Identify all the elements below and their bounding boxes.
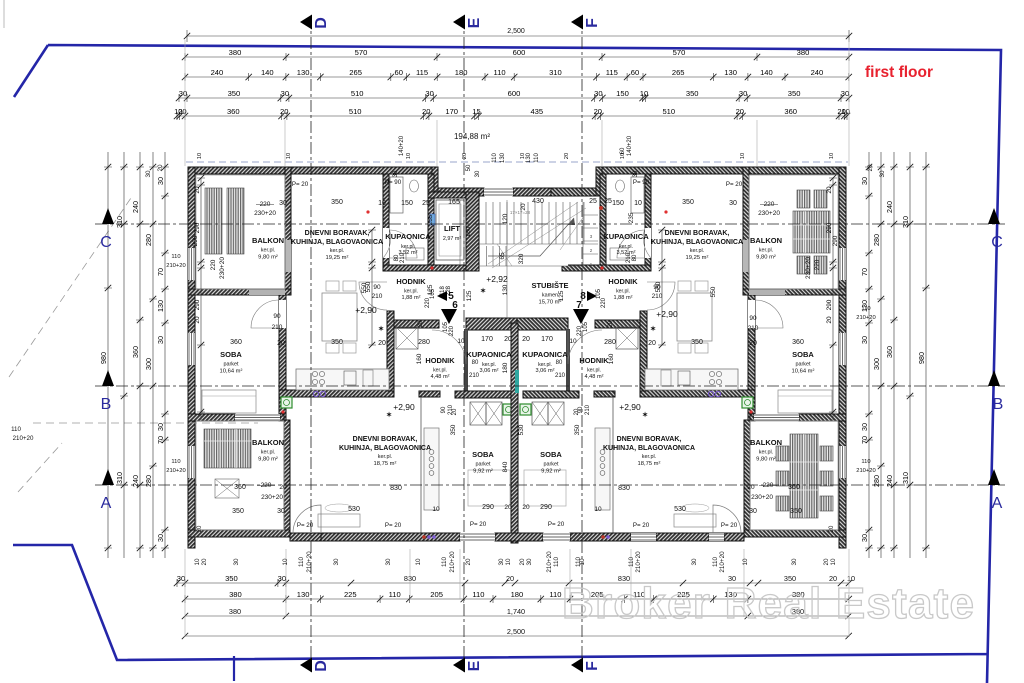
svg-text:280: 280 (418, 339, 430, 346)
svg-text:194,88 m²: 194,88 m² (454, 132, 490, 141)
svg-text:10: 10 (841, 107, 849, 116)
svg-text:30: 30 (791, 558, 798, 566)
svg-text:65: 65 (499, 252, 506, 260)
svg-text:19,25 m²: 19,25 m² (326, 255, 349, 261)
svg-text:20: 20 (504, 504, 512, 511)
svg-text:170: 170 (481, 336, 493, 343)
svg-text:20: 20 (519, 558, 526, 566)
svg-text:510: 510 (351, 89, 364, 98)
svg-text:30: 30 (156, 534, 165, 542)
svg-text:265: 265 (672, 68, 685, 77)
svg-text:9,80 m²: 9,80 m² (756, 456, 776, 462)
svg-text:10: 10 (829, 153, 835, 159)
svg-text:30: 30 (278, 574, 286, 583)
svg-text:230+20: 230+20 (254, 210, 276, 217)
svg-text:180: 180 (511, 590, 524, 599)
svg-text:KUPAONICA: KUPAONICA (603, 232, 649, 241)
svg-text:550: 550 (710, 286, 717, 297)
svg-text:235: 235 (427, 214, 434, 225)
svg-text:160: 160 (416, 353, 423, 364)
svg-text:ker.pl.: ker.pl. (404, 289, 418, 295)
svg-text:20: 20 (736, 107, 744, 116)
svg-text:P= 20: P= 20 (721, 522, 738, 529)
svg-text:110: 110 (492, 153, 498, 163)
svg-text:130: 130 (500, 152, 506, 163)
svg-text:70: 70 (156, 268, 165, 276)
svg-text:230+20: 230+20 (751, 494, 773, 501)
svg-text:20: 20 (452, 408, 458, 415)
svg-text:ker.pl.: ker.pl. (616, 289, 630, 295)
svg-text:15: 15 (472, 107, 480, 116)
svg-text:290: 290 (192, 235, 199, 246)
svg-text:30: 30 (333, 558, 340, 566)
svg-text:30: 30 (594, 89, 602, 98)
svg-text:kamen: kamen (542, 293, 558, 299)
svg-text:210+20: 210+20 (635, 551, 642, 573)
svg-text:20: 20 (867, 164, 874, 172)
svg-text:20: 20 (574, 408, 580, 415)
svg-text:P= 20: P= 20 (292, 181, 309, 188)
svg-text:90: 90 (273, 313, 281, 320)
svg-text:360: 360 (885, 346, 894, 358)
svg-text:KUHINJA, BLAGOVAONICA: KUHINJA, BLAGOVAONICA (603, 445, 695, 452)
svg-text:30: 30 (860, 336, 869, 344)
svg-text:30: 30 (233, 558, 240, 566)
svg-text:830: 830 (390, 485, 402, 492)
svg-text:ker.pl.: ker.pl. (261, 248, 275, 254)
svg-text:380: 380 (229, 607, 241, 616)
svg-text:360: 360 (230, 339, 242, 346)
svg-text:310: 310 (549, 68, 562, 77)
svg-text:290: 290 (540, 504, 552, 511)
svg-text:570: 570 (355, 48, 368, 57)
svg-text:280: 280 (872, 234, 881, 246)
svg-text:110: 110 (553, 556, 560, 567)
svg-text:350: 350 (228, 89, 241, 98)
svg-text:125: 125 (466, 290, 473, 301)
svg-text:20: 20 (823, 558, 830, 566)
svg-text:280: 280 (144, 234, 153, 246)
svg-text:30: 30 (498, 558, 505, 566)
svg-text:20: 20 (280, 107, 288, 116)
svg-text:DNEVNI BORAVAK,: DNEVNI BORAVAK, (665, 230, 730, 237)
svg-text:9,80 m²: 9,80 m² (258, 456, 278, 462)
svg-text:KUHINJA, BLAGOVAONICA: KUHINJA, BLAGOVAONICA (651, 239, 743, 246)
svg-text:290: 290 (832, 235, 839, 246)
svg-text:220: 220 (577, 325, 583, 336)
svg-text:140+20: 140+20 (399, 135, 405, 156)
svg-text:210: 210 (400, 252, 406, 263)
svg-text:30: 30 (526, 558, 533, 566)
svg-text:DNEVNI BORAVAK,: DNEVNI BORAVAK, (617, 436, 682, 443)
svg-text:140: 140 (760, 68, 773, 77)
svg-text:30: 30 (277, 508, 285, 515)
svg-text:210+20: 210+20 (306, 551, 313, 573)
svg-text:90: 90 (441, 406, 447, 413)
svg-text:18,75 m²: 18,75 m² (374, 461, 397, 467)
svg-text:290: 290 (482, 504, 494, 511)
svg-text:240: 240 (131, 201, 140, 213)
svg-text:90: 90 (749, 315, 757, 322)
svg-text:360: 360 (131, 346, 140, 358)
svg-text:SOBA: SOBA (220, 350, 242, 359)
svg-text:230+20: 230+20 (758, 210, 780, 217)
svg-text:280: 280 (604, 339, 616, 346)
svg-text:150: 150 (616, 89, 629, 98)
svg-text:parket: parket (476, 462, 491, 468)
svg-text:A: A (992, 495, 1003, 512)
svg-text:110: 110 (549, 590, 561, 599)
svg-text:30: 30 (860, 177, 869, 185)
svg-text:125: 125 (558, 290, 565, 301)
svg-text:BALKON: BALKON (252, 438, 284, 447)
svg-text:D: D (313, 660, 330, 672)
svg-text:80: 80 (632, 254, 638, 261)
svg-text:210: 210 (555, 373, 566, 379)
svg-text:350: 350 (686, 89, 699, 98)
svg-text:10: 10 (197, 153, 203, 159)
svg-text:110: 110 (534, 153, 540, 163)
svg-text:ker.pl.: ker.pl. (690, 248, 704, 254)
svg-text:4,48 m²: 4,48 m² (431, 374, 450, 380)
svg-text:240: 240 (885, 475, 894, 487)
svg-text:240: 240 (211, 68, 224, 77)
svg-text:110: 110 (298, 556, 305, 567)
svg-text:30: 30 (860, 534, 869, 542)
svg-text:P= 20: P= 20 (726, 181, 743, 188)
svg-text:210+20: 210+20 (13, 435, 34, 442)
svg-text:2,500: 2,500 (507, 28, 525, 35)
svg-text:10: 10 (282, 558, 289, 566)
svg-text:220: 220 (814, 259, 821, 270)
svg-text:30: 30 (156, 336, 165, 344)
svg-text:130: 130 (502, 284, 509, 295)
svg-text:+2,90: +2,90 (355, 305, 377, 315)
svg-text:225: 225 (344, 590, 357, 599)
svg-text:10: 10 (378, 200, 386, 207)
svg-text:HODNIK: HODNIK (579, 356, 609, 365)
svg-text:30: 30 (841, 89, 849, 98)
svg-text:P= 90: P= 90 (385, 179, 402, 186)
svg-text:D: D (313, 17, 330, 29)
svg-text:105: 105 (596, 288, 602, 299)
svg-text:F: F (584, 661, 601, 671)
svg-text:530: 530 (348, 506, 360, 513)
svg-text:HODNIK: HODNIK (396, 277, 426, 286)
svg-text:530: 530 (518, 424, 525, 435)
svg-text:20: 20 (197, 525, 203, 532)
svg-text:20: 20 (826, 316, 833, 324)
svg-text:9,92 m²: 9,92 m² (541, 468, 561, 474)
svg-text:ker.pl.: ker.pl. (759, 248, 773, 254)
svg-text:235: 235 (628, 212, 635, 223)
svg-text:350: 350 (682, 199, 694, 206)
svg-text:350: 350 (788, 89, 801, 98)
svg-text:20: 20 (594, 107, 602, 116)
svg-text:HODNIK: HODNIK (425, 356, 455, 365)
svg-text:380: 380 (229, 590, 242, 599)
svg-text:110: 110 (494, 68, 506, 77)
svg-text:120: 120 (502, 213, 509, 224)
svg-text:110: 110 (11, 426, 21, 433)
svg-text:1,740: 1,740 (507, 607, 525, 616)
svg-text:4,48 m²: 4,48 m² (585, 374, 604, 380)
svg-text:B: B (101, 396, 112, 413)
svg-text:130: 130 (297, 590, 310, 599)
svg-text:230+20: 230+20 (805, 257, 812, 279)
svg-text:10: 10 (520, 153, 526, 159)
svg-text:BALKON: BALKON (750, 438, 782, 447)
svg-text:Broker Real Estate: Broker Real Estate (562, 579, 974, 628)
svg-text:30: 30 (393, 170, 399, 177)
svg-text:20: 20 (506, 574, 514, 583)
svg-text:✶: ✶ (378, 325, 384, 333)
svg-text:360: 360 (788, 484, 800, 491)
svg-text:20: 20 (504, 336, 512, 343)
svg-text:110: 110 (171, 459, 180, 465)
svg-text:+2,90: +2,90 (393, 402, 415, 412)
svg-text:3,06 m²: 3,06 m² (480, 368, 499, 374)
svg-text:110: 110 (712, 556, 719, 567)
svg-text:60: 60 (394, 68, 402, 77)
svg-text:130: 130 (526, 152, 532, 163)
svg-text:✶: ✶ (386, 411, 392, 419)
svg-text:210+20: 210+20 (856, 468, 876, 474)
svg-text:SOBA: SOBA (472, 450, 494, 459)
svg-text:600: 600 (508, 89, 521, 98)
svg-text:30: 30 (145, 170, 152, 178)
svg-text:KUHINJA, BLAGOVAONICA: KUHINJA, BLAGOVAONICA (339, 445, 431, 452)
svg-text:DNEVNI BORAVAK,: DNEVNI BORAVAK, (353, 436, 418, 443)
svg-text:350: 350 (331, 199, 343, 206)
svg-text:9,80 m²: 9,80 m² (756, 254, 776, 260)
svg-text:30: 30 (281, 89, 289, 98)
svg-text:10: 10 (742, 558, 749, 566)
svg-text:80: 80 (556, 360, 563, 366)
svg-text:20: 20 (201, 558, 208, 566)
svg-text:110: 110 (171, 254, 180, 260)
svg-text:310: 310 (115, 216, 124, 228)
svg-text:10: 10 (634, 200, 642, 207)
svg-text:210: 210 (372, 293, 383, 300)
svg-text:+2,90: +2,90 (619, 402, 641, 412)
svg-text:F: F (584, 18, 601, 28)
svg-text:P= 20: P= 20 (548, 521, 565, 528)
svg-text:50: 50 (466, 164, 472, 171)
svg-text:205: 205 (430, 590, 443, 599)
svg-text:25: 25 (604, 198, 612, 205)
svg-text:10: 10 (640, 89, 648, 98)
svg-text:10: 10 (406, 153, 412, 159)
svg-text:510: 510 (349, 107, 362, 116)
svg-text:265: 265 (349, 68, 362, 77)
svg-text:30: 30 (729, 200, 737, 207)
svg-text:165: 165 (448, 199, 460, 206)
svg-text:210+20: 210+20 (546, 551, 553, 573)
svg-text:ker.pl.: ker.pl. (378, 454, 392, 460)
svg-text:30: 30 (385, 558, 392, 566)
svg-text:160: 160 (608, 353, 615, 364)
svg-text:570: 570 (673, 48, 686, 57)
svg-text:60: 60 (631, 68, 639, 77)
svg-text:10: 10 (740, 153, 746, 159)
svg-text:10: 10 (457, 338, 465, 345)
svg-text:210+20: 210+20 (719, 551, 726, 573)
svg-text:10: 10 (194, 558, 201, 566)
svg-text:10,64 m²: 10,64 m² (220, 368, 243, 374)
svg-text:20: 20 (564, 153, 570, 159)
svg-text:✶: ✶ (480, 287, 486, 295)
svg-text:BALKON: BALKON (252, 236, 284, 245)
svg-text:210: 210 (469, 373, 480, 379)
svg-text:310: 310 (901, 216, 910, 228)
svg-text:20: 20 (749, 340, 757, 347)
svg-text:+2,92: +2,92 (486, 274, 508, 284)
svg-text:170: 170 (541, 336, 553, 343)
svg-text:110: 110 (389, 590, 401, 599)
svg-text:E: E (466, 660, 483, 671)
svg-text:980: 980 (99, 352, 108, 364)
svg-text:290: 290 (194, 222, 201, 233)
svg-text:KUHINJA, BLAGOVAONICA: KUHINJA, BLAGOVAONICA (291, 239, 383, 246)
svg-text:E: E (466, 17, 483, 28)
svg-text:2,97 m²: 2,97 m² (443, 236, 461, 242)
svg-text:380: 380 (797, 48, 810, 57)
svg-text:P= 20: P= 20 (470, 521, 487, 528)
svg-text:30: 30 (691, 558, 698, 566)
svg-text:210+20: 210+20 (166, 468, 186, 474)
svg-text:130: 130 (724, 68, 737, 77)
svg-text:KUPAONICA: KUPAONICA (522, 350, 568, 359)
svg-text:10: 10 (830, 558, 837, 566)
svg-text:980: 980 (917, 352, 926, 364)
svg-text:435: 435 (530, 107, 543, 116)
svg-text:10: 10 (620, 153, 626, 159)
svg-text:300: 300 (872, 358, 881, 370)
svg-text:20: 20 (178, 107, 186, 116)
svg-text:parket: parket (224, 362, 239, 368)
svg-text:ker.pl.: ker.pl. (759, 450, 773, 456)
svg-text:360: 360 (792, 339, 804, 346)
svg-text:SOBA: SOBA (540, 450, 562, 459)
svg-text:30: 30 (879, 170, 886, 178)
svg-text:30: 30 (425, 89, 433, 98)
svg-text:18,75 m²: 18,75 m² (638, 461, 661, 467)
svg-text:110: 110 (441, 556, 448, 567)
svg-text:first floor: first floor (865, 64, 933, 81)
svg-text:150: 150 (612, 200, 624, 207)
svg-text:105: 105 (583, 321, 589, 332)
svg-text:550: 550 (361, 282, 368, 293)
svg-text:210: 210 (626, 252, 632, 263)
svg-text:9,92 m²: 9,92 m² (473, 468, 493, 474)
svg-text:210: 210 (585, 404, 591, 415)
svg-text:20: 20 (277, 340, 285, 347)
svg-text:ker.pl.: ker.pl. (538, 362, 552, 368)
svg-text:210: 210 (272, 324, 283, 331)
svg-text:290: 290 (826, 299, 833, 310)
svg-text:30: 30 (156, 423, 165, 431)
svg-text:360: 360 (227, 107, 240, 116)
svg-text:280: 280 (872, 475, 881, 487)
svg-text:20: 20 (520, 203, 527, 211)
svg-text:+2,90: +2,90 (656, 309, 678, 319)
svg-text:140+20: 140+20 (627, 135, 633, 156)
svg-text:110: 110 (861, 306, 870, 312)
svg-text:240: 240 (885, 201, 894, 213)
svg-text:830: 830 (618, 485, 630, 492)
svg-text:STUBIŠTE: STUBIŠTE (531, 281, 568, 290)
svg-text:840: 840 (502, 461, 509, 472)
svg-text:70: 70 (860, 436, 869, 444)
svg-text:20: 20 (522, 336, 530, 343)
svg-text:350: 350 (232, 508, 244, 515)
svg-text:240: 240 (131, 475, 140, 487)
svg-text:parket: parket (544, 462, 559, 468)
svg-text:A: A (101, 495, 112, 512)
svg-text:3,06 m²: 3,06 m² (536, 368, 555, 374)
svg-text:10: 10 (594, 506, 602, 513)
svg-text:210: 210 (748, 325, 759, 332)
svg-text:20: 20 (422, 107, 430, 116)
svg-text:30: 30 (177, 574, 185, 583)
svg-text:30: 30 (279, 200, 287, 207)
svg-text:C: C (991, 234, 1003, 251)
svg-text:30: 30 (179, 89, 187, 98)
svg-text:220: 220 (449, 325, 455, 336)
svg-text:530: 530 (674, 506, 686, 513)
svg-text:10: 10 (505, 558, 512, 566)
svg-text:ker.pl.: ker.pl. (482, 362, 496, 368)
svg-text:230+20: 230+20 (261, 494, 283, 501)
svg-text:310: 310 (901, 472, 910, 484)
svg-text:180: 180 (465, 226, 472, 237)
svg-text:220: 220 (210, 259, 217, 270)
svg-text:380: 380 (229, 48, 242, 57)
svg-text:30: 30 (475, 170, 481, 177)
svg-text:20: 20 (194, 316, 201, 324)
svg-text:✶: ✶ (650, 325, 656, 333)
svg-text:20: 20 (462, 153, 468, 159)
svg-text:180: 180 (502, 362, 509, 373)
svg-text:1,88 m²: 1,88 m² (402, 295, 421, 301)
svg-text:20: 20 (829, 525, 835, 532)
svg-text:140: 140 (261, 68, 274, 77)
svg-text:115: 115 (606, 68, 618, 77)
svg-text:20: 20 (279, 484, 287, 491)
svg-text:ker.pl.: ker.pl. (433, 368, 447, 374)
svg-text:20: 20 (194, 186, 201, 194)
svg-text:80: 80 (472, 360, 479, 366)
svg-text:30: 30 (739, 89, 747, 98)
svg-text:350: 350 (691, 339, 703, 346)
svg-text:230+20: 230+20 (219, 257, 226, 279)
svg-text:90: 90 (653, 284, 661, 291)
svg-text:210+20: 210+20 (166, 263, 186, 269)
svg-text:20: 20 (378, 340, 386, 347)
svg-text:210+20: 210+20 (856, 315, 876, 321)
svg-text:10: 10 (432, 506, 440, 513)
svg-text:ker.pl.: ker.pl. (261, 450, 275, 456)
svg-text:DNEVNI BORAVAK,: DNEVNI BORAVAK, (305, 230, 370, 237)
svg-text:300: 300 (144, 358, 153, 370)
svg-text:9,80 m²: 9,80 m² (258, 254, 278, 260)
svg-text:ker.pl.: ker.pl. (619, 244, 633, 250)
svg-text:290: 290 (826, 222, 833, 233)
svg-text:170: 170 (445, 107, 458, 116)
svg-text:30: 30 (633, 170, 639, 177)
svg-text:20: 20 (747, 484, 755, 491)
